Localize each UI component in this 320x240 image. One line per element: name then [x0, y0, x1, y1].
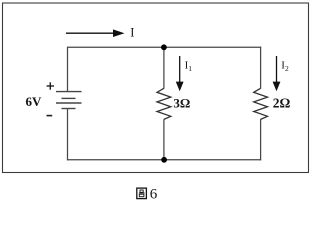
wire middle branch upper: [163, 47, 165, 88]
wire top rail left segment: [68, 46, 164, 48]
wire left branch lower: [67, 109, 69, 161]
svg-text:3Ω: 3Ω: [173, 95, 190, 110]
wire middle branch lower: [163, 119, 165, 160]
junction node bottom: [161, 157, 167, 163]
junction node top: [161, 44, 167, 50]
wire right branch lower: [260, 119, 262, 160]
resistor R2: [254, 88, 268, 119]
wire bottom rail left segment: [67, 159, 164, 161]
battery minus sign: [47, 115, 53, 117]
wire bottom rail right segment: [164, 159, 261, 161]
current arrow I2: [273, 56, 281, 91]
svg-text:I: I: [130, 26, 134, 40]
wire right branch upper: [260, 47, 262, 89]
current arrow I: [66, 29, 125, 37]
svg-text:6V: 6V: [26, 94, 43, 109]
wire top rail right segment: [164, 46, 261, 48]
current arrow I1: [176, 56, 184, 91]
wire left branch upper: [67, 47, 69, 92]
resistor R1: [157, 88, 171, 119]
caption 圖 6: [137, 187, 158, 203]
svg-text:2Ω: 2Ω: [273, 96, 291, 111]
svg-text:6: 6: [150, 187, 158, 203]
battery V1 6V: [56, 92, 82, 109]
battery plus sign: [47, 82, 54, 89]
